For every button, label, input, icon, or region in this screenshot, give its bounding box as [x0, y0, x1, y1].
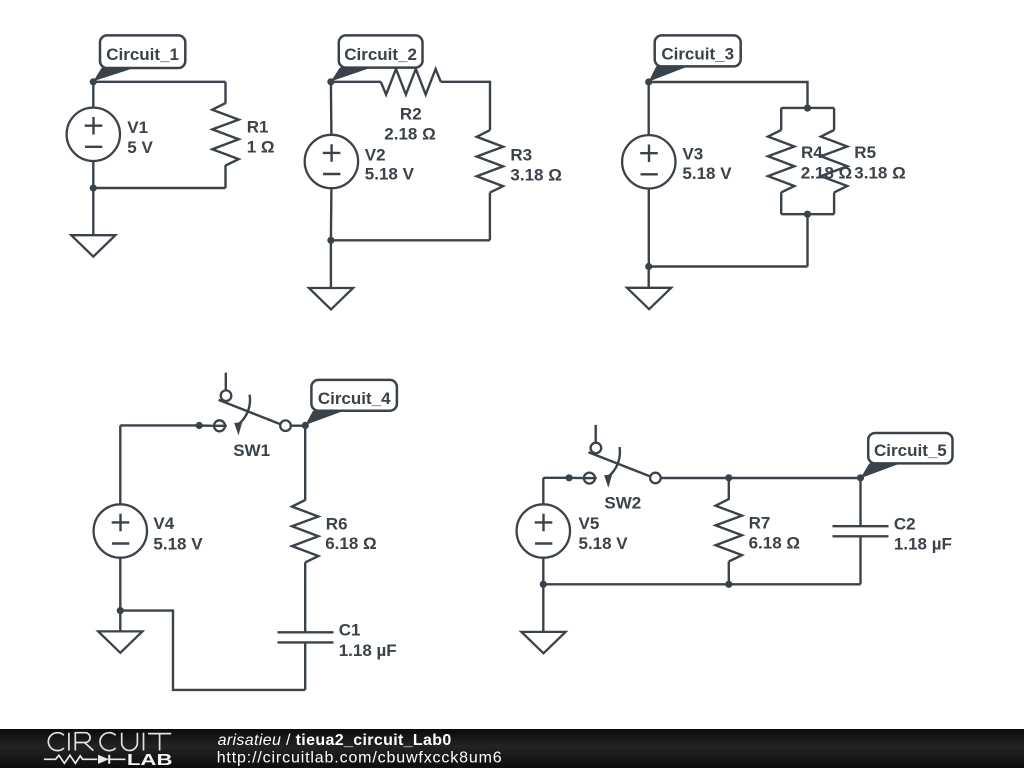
wire bottom c4	[120, 611, 305, 690]
wire R6 to C1	[304, 562, 306, 632]
label bubble Circuit_3	[649, 35, 741, 81]
wire switch to R7 top c5	[661, 477, 861, 479]
resistor R2	[381, 69, 441, 95]
switch SW2	[566, 425, 661, 488]
wire V3 bottom lead	[648, 189, 650, 267]
voltage source V5	[517, 504, 570, 557]
label bubble Circuit_2	[331, 35, 423, 81]
wire bottom c5	[543, 583, 860, 585]
node bottom c4	[117, 607, 124, 614]
ground c4	[98, 631, 142, 652]
svg-text:R7: R7	[749, 514, 771, 533]
svg-text:Circuit_5: Circuit_5	[874, 441, 947, 460]
wire C2 bottom lead	[859, 536, 861, 584]
label bubble Circuit_4	[305, 380, 397, 425]
svg-text:R1: R1	[247, 117, 269, 136]
ground c3	[627, 288, 671, 309]
wire R7 top lead	[728, 478, 730, 500]
capacitor C2	[833, 526, 889, 536]
logo resistor-diode glyph	[44, 755, 126, 763]
wire ground lead c3	[648, 267, 650, 288]
label bubble Circuit_5	[860, 433, 952, 478]
svg-text:1 Ω: 1 Ω	[247, 138, 275, 157]
wire switch to node c4	[291, 425, 306, 427]
node parallel top c3	[804, 105, 811, 112]
ground c2	[309, 288, 353, 309]
wire parallel bottom stub c3	[806, 214, 808, 266]
voltage source V1	[67, 108, 120, 161]
svg-text:R6: R6	[326, 514, 348, 533]
svg-text:5.18 V: 5.18 V	[153, 534, 203, 553]
svg-text:http://circuitlab.com/cbuwfxcc: http://circuitlab.com/cbuwfxcck8um6	[217, 750, 503, 767]
logo CIRCUIT	[48, 733, 171, 751]
wire V1 bottom lead	[92, 161, 94, 188]
svg-text:1.18 µF: 1.18 µF	[894, 534, 952, 553]
node parallel bottom c3	[804, 211, 811, 218]
svg-text:3.18 Ω: 3.18 Ω	[510, 165, 561, 184]
svg-text:2.18 Ω: 2.18 Ω	[801, 164, 852, 183]
wire ground lead c1	[92, 188, 94, 235]
node bottom c1	[90, 184, 97, 191]
wire parallel top bar c3	[781, 107, 834, 109]
wire V5 top lead	[542, 478, 544, 505]
wire right-bottom c2	[489, 193, 491, 241]
svg-text:Circuit_3: Circuit_3	[661, 45, 734, 64]
wire C1 bottom lead	[304, 642, 306, 690]
resistor R7	[716, 499, 742, 561]
switch SW1	[196, 373, 291, 436]
wire top-right c2	[441, 82, 490, 130]
svg-text:R2: R2	[400, 104, 422, 123]
svg-text:2.18 Ω: 2.18 Ω	[384, 125, 435, 144]
capacitor C1	[278, 632, 334, 642]
svg-text:SW1: SW1	[233, 441, 270, 460]
resistor R5	[821, 130, 847, 192]
svg-text:R3: R3	[510, 145, 532, 164]
wire R5 bottom lead	[833, 192, 835, 214]
wire R6 top lead	[304, 425, 306, 500]
svg-text:C2: C2	[894, 515, 916, 534]
node right c4	[302, 422, 309, 429]
svg-text:6.18 Ω: 6.18 Ω	[325, 534, 376, 553]
wire V1 top lead	[92, 82, 94, 108]
svg-text:1.18 µF: 1.18 µF	[339, 641, 397, 660]
wire right-top c1	[224, 82, 226, 104]
wire R7 bottom lead	[728, 562, 730, 585]
wire C2 top lead	[859, 478, 861, 526]
svg-text:SW2: SW2	[604, 494, 641, 513]
node bottom c3	[645, 263, 652, 270]
wire V4 bottom lead	[119, 558, 121, 611]
wire bottom c2	[331, 239, 490, 241]
wire V2 bottom lead	[330, 188, 333, 240]
voltage source V2	[305, 135, 358, 188]
resistor R3	[477, 130, 503, 192]
svg-text:6.18 Ω: 6.18 Ω	[749, 534, 800, 553]
wire ground lead c4	[119, 611, 121, 632]
svg-text:5 V: 5 V	[127, 138, 153, 157]
voltage source V4	[94, 504, 147, 557]
svg-text:V1: V1	[127, 118, 148, 137]
wire ground lead c5	[542, 584, 544, 632]
resistor R6	[292, 500, 318, 562]
svg-text:C1: C1	[339, 621, 361, 640]
wire bottom c3	[649, 265, 808, 267]
resistor R4	[768, 130, 794, 192]
wire R5 top lead	[833, 108, 835, 130]
svg-text:Circuit_2: Circuit_2	[344, 45, 417, 64]
wire top c3	[649, 82, 808, 108]
svg-text:3.18 Ω: 3.18 Ω	[854, 164, 905, 183]
wire ground lead c2	[330, 240, 332, 288]
wire top-left c2	[331, 81, 381, 83]
svg-text:LAB: LAB	[127, 752, 173, 768]
node bottom c2	[327, 237, 334, 244]
svg-text:arisatieu / tieua2_circuit_Lab: arisatieu / tieua2_circuit_Lab0	[218, 732, 452, 749]
wire top-left c4	[120, 424, 199, 426]
svg-text:V2: V2	[365, 145, 386, 164]
svg-text:V4: V4	[153, 514, 174, 533]
node top c3	[645, 78, 652, 85]
node R7 bottom	[725, 581, 732, 588]
node C2 top	[857, 474, 864, 481]
svg-text:5.18 V: 5.18 V	[365, 165, 415, 184]
wire top c1	[93, 81, 225, 83]
wire V3 top lead	[648, 82, 650, 135]
label bubble Circuit_1	[93, 35, 185, 81]
node top c2	[327, 78, 334, 85]
wire R4 top lead	[780, 108, 782, 130]
node R7 top	[725, 474, 732, 481]
svg-text:5.18 V: 5.18 V	[579, 534, 629, 553]
svg-text:Circuit_1: Circuit_1	[106, 45, 179, 64]
node bottom c5	[540, 581, 547, 588]
wire V5 bottom lead	[542, 558, 544, 585]
voltage source V3	[622, 135, 675, 188]
node top c1	[90, 78, 97, 85]
ground c1	[71, 235, 115, 256]
svg-text:Circuit_4: Circuit_4	[318, 389, 391, 408]
wire right-bottom c1	[224, 165, 226, 188]
wire V4 top lead	[119, 425, 121, 504]
wire bottom c1	[93, 187, 225, 189]
svg-text:R4: R4	[801, 143, 823, 162]
svg-text:V5: V5	[579, 514, 600, 533]
wire V2 top lead	[330, 82, 333, 135]
svg-text:R5: R5	[854, 143, 876, 162]
wire R4 bottom lead	[780, 192, 782, 214]
wire top-left c5	[543, 477, 570, 479]
ground c5	[521, 632, 565, 653]
svg-text:V3: V3	[682, 145, 703, 164]
svg-text:5.18 V: 5.18 V	[682, 164, 732, 183]
footer bar background	[0, 729, 1024, 768]
resistor R1	[212, 103, 238, 165]
wire parallel bottom bar c3	[781, 213, 834, 215]
